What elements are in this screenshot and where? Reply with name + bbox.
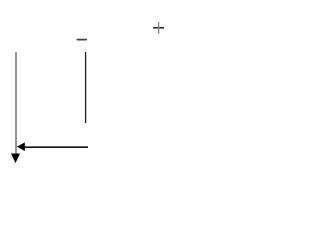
polarity label minus: [77, 39, 86, 41]
polarity label plus: [153, 22, 164, 34]
wire: left vertical branch: [15, 52, 17, 155]
wire: bottom horizontal branch: [24, 146, 88, 148]
arrowhead: current direction left into node at left wire: [17, 142, 25, 151]
arrowhead: current direction down at bottom of left wire: [11, 154, 20, 164]
wire: middle vertical branch: [85, 52, 87, 123]
